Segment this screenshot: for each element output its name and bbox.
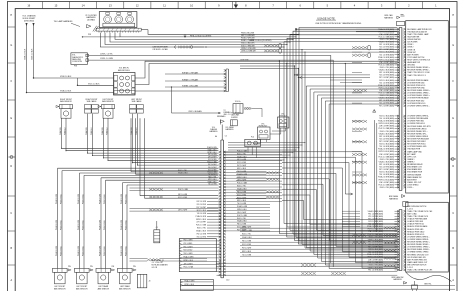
middle rows joining bus drops xyxy=(224,159,285,161)
svg-text:J1939- 1.0 GRN-WIR: J1939- 1.0 GRN-WIR xyxy=(241,50,257,52)
wires lower-left box to middle strip xyxy=(216,240,221,242)
svg-text:ABS SENSOR: ABS SENSOR xyxy=(76,288,88,291)
middle strip pins xyxy=(219,151,221,153)
svg-text:PARK BRAKE SW: PARK BRAKE SW xyxy=(407,176,421,179)
svg-text:V30A 1.0 BLK (ABS): V30A 1.0 BLK (ABS) xyxy=(379,97,395,100)
svg-text:RH AXLE PWR RELEASE: RH AXLE PWR RELEASE xyxy=(407,225,428,228)
firewall drop wire with arrow xyxy=(171,86,172,87)
svg-text:T40 1.0 GRN: T40 1.0 GRN xyxy=(184,253,193,255)
svg-text:M13 1.0 BLU (ABS): M13 1.0 BLU (ABS) xyxy=(368,220,383,223)
svg-text:K55 1.0 RED: K55 1.0 RED xyxy=(184,243,194,245)
svg-text:F82 1.0 GRN (ABS): F82 1.0 GRN (ABS) xyxy=(379,71,394,74)
rear sensor pair 1 horizontal feed xyxy=(58,167,219,169)
rear sensor pair 2 horizontal feed xyxy=(80,172,219,174)
svg-text:F82 1.0 GRN: F82 1.0 GRN xyxy=(208,154,216,156)
lower-left box pin rows xyxy=(180,240,182,242)
cluster connector bar left hatch marks xyxy=(93,26,97,32)
small lamp box FL4 xyxy=(245,139,260,146)
svg-text:D: D xyxy=(10,165,12,168)
bus drop wire B4 xyxy=(292,39,294,234)
svg-text:F82 1.0 GRN: F82 1.0 GRN xyxy=(237,224,246,226)
svg-text:F87B 1.0 BLU: F87B 1.0 BLU xyxy=(237,209,247,211)
extra long feeds y80-105 xyxy=(330,79,362,81)
svg-text:R46 1.0 YEL: R46 1.0 YEL xyxy=(237,218,246,220)
corner wire A1 xyxy=(306,86,397,248)
svg-text:T40 1.0 GRN: T40 1.0 GRN xyxy=(208,184,216,186)
svg-text:T40 1.0 GRN: T40 1.0 GRN xyxy=(197,213,207,215)
lower-left connector box J2 xyxy=(179,239,216,272)
right connector strip C21 lower xyxy=(398,210,400,271)
C3 drop wire 1 xyxy=(130,118,132,171)
svg-text:RH WHEEL LAMP INTERLOCK: RH WHEEL LAMP INTERLOCK xyxy=(407,28,432,31)
svg-text:M13 1.0 BLU: M13 1.0 BLU xyxy=(237,200,246,202)
svg-text:R46 1.0 YEL (ABS): R46 1.0 YEL (ABS) xyxy=(380,186,395,189)
diag pin box 2 xyxy=(86,59,89,62)
svg-text:BRK PDL: BRK PDL xyxy=(424,283,431,285)
svg-text:F82 1.0 GRN: F82 1.0 GRN xyxy=(197,233,207,235)
cluster bus wire 1 xyxy=(100,33,204,47)
svg-text:K55 1.0 RED (ABS): K55 1.0 RED (ABS) xyxy=(368,215,383,218)
IP cluster arrow symbol xyxy=(87,25,92,28)
svg-text:ENG BRAKE HIGH: ENG BRAKE HIGH xyxy=(407,171,423,174)
bottom center twisted pairs xyxy=(352,234,366,238)
svg-text:F87B 1.0 BLU: F87B 1.0 BLU xyxy=(207,152,216,154)
svg-text:LH SPARE WHEEL SPEED: LH SPARE WHEEL SPEED xyxy=(407,251,429,254)
rear sensor connector bar 3 xyxy=(96,268,111,272)
left ruler band ticks xyxy=(8,26,16,28)
middle right twisted pairs xyxy=(266,172,279,175)
svg-text:P60B BLU: P60B BLU xyxy=(64,127,66,135)
svg-text:V30A 1.0 BLK (ABS): V30A 1.0 BLK (ABS) xyxy=(379,160,395,163)
svg-text:G: G xyxy=(452,44,454,47)
lower-left sub box xyxy=(180,279,213,290)
svg-text:P67 2.0 WHT: P67 2.0 WHT xyxy=(237,165,246,167)
svg-text:USAGE NOTE: USAGE NOTE xyxy=(317,16,335,20)
left band fold mark xyxy=(9,156,16,158)
svg-text:F82 1.0 GRN (ABS): F82 1.0 GRN (ABS) xyxy=(368,240,383,243)
bus drop wire B5 xyxy=(295,37,297,238)
svg-text:T40 1.0 GRN (ABS): T40 1.0 GRN (ABS) xyxy=(379,81,394,84)
svg-text:TRAC CTRL SPLR 12.3 CHK: TRAC CTRL SPLR 12.3 CHK xyxy=(407,71,430,74)
right signal list box upper xyxy=(406,21,449,193)
fan wire C6 xyxy=(282,179,397,241)
svg-text:M13 1.0 BLU (ABS): M13 1.0 BLU (ABS) xyxy=(379,143,394,146)
svg-text:ABS SENSOR: ABS SENSOR xyxy=(102,100,114,103)
cluster pin stubs xyxy=(98,31,100,32)
J1939 vertical pair x294 x298 xyxy=(294,65,295,66)
svg-text:P14A 2.0 GRN (ABS): P14A 2.0 GRN (ABS) xyxy=(378,56,394,59)
rear sensor pair 4 horizontal feed xyxy=(123,182,219,184)
ground wire G2 vertical xyxy=(32,23,34,26)
svg-text:K55 1.0 RED: K55 1.0 RED xyxy=(237,162,247,164)
top extra row pair y49-52 xyxy=(240,49,397,51)
left twisted pair y258 xyxy=(147,259,160,262)
svg-text:P67 2.0 WHT (ABS): P67 2.0 WHT (ABS) xyxy=(379,76,394,79)
C3 drop wire 4 xyxy=(144,118,146,198)
ABS module internal circles xyxy=(120,76,124,80)
ABS right wire 1 xyxy=(135,61,397,78)
svg-text:SPARE 2: SPARE 2 xyxy=(407,161,414,164)
right signal list box lower xyxy=(406,202,449,272)
svg-text:J2H 1.0 WHT: J2H 1.0 WHT xyxy=(196,222,206,224)
svg-text:M13 1.0 BLU: M13 1.0 BLU xyxy=(237,168,246,170)
ABS module right pin boxes xyxy=(132,75,135,81)
front sensor pair 1 wires down xyxy=(61,118,63,148)
svg-text:GND - C##: GND - C## xyxy=(224,114,232,116)
svg-text:K55 1.0 RED: K55 1.0 RED xyxy=(208,169,216,171)
svg-text:K55 1.0 RED (ABS): K55 1.0 RED (ABS) xyxy=(379,102,394,105)
svg-text:TRAIL CTRL STEER PLCK CHK: TRAIL CTRL STEER PLCK CHK xyxy=(407,269,433,272)
svg-text:J2H 1.0 WHT: J2H 1.0 WHT xyxy=(208,157,217,159)
rear sensor pair 3 verticals xyxy=(100,178,102,268)
middle strip feeder line xyxy=(221,125,223,141)
lower box bottom squiggle xyxy=(406,272,452,282)
svg-text:OR BLKD - ECAB: OR BLKD - ECAB xyxy=(152,48,168,51)
svg-text:V30A 1.0 BLK: V30A 1.0 BLK xyxy=(24,48,27,60)
right strip top cap xyxy=(397,21,405,25)
svg-text:VOL: VOL xyxy=(212,127,215,129)
svg-text:P61B 1.0 BLU: P61B 1.0 BLU xyxy=(82,220,84,230)
top center zone arrow marker xyxy=(234,2,237,8)
svg-text:M13 1.0 BLU: M13 1.0 BLU xyxy=(208,179,216,181)
svg-text:TEL LAMP HARNESS: TEL LAMP HARNESS xyxy=(54,20,73,23)
svg-text:V30B 1.0 BLK: V30B 1.0 BLK xyxy=(60,76,72,78)
right connector strip C20 upper xyxy=(398,28,400,191)
svg-text:F82C 1.0 GRN-WIR: F82C 1.0 GRN-WIR xyxy=(241,35,256,37)
middle bulkhead connector strip C10 xyxy=(220,140,222,278)
svg-text:TRAIL CTRL STEER PLCK: TRAIL CTRL STEER PLCK xyxy=(407,215,429,218)
svg-text:P14C 2.0 TAN (ABS): P14C 2.0 TAN (ABS) xyxy=(378,35,394,38)
fan wire C2 xyxy=(282,157,397,262)
svg-text:K55 1.0 RED: K55 1.0 RED xyxy=(197,236,207,238)
jumper box xyxy=(231,120,238,126)
svg-text:JUMPER: JUMPER xyxy=(231,117,238,119)
center wire y68 xyxy=(240,68,298,70)
svg-text:M13 1.0 BLU: M13 1.0 BLU xyxy=(184,250,193,252)
diag wire 1 xyxy=(89,56,331,264)
J1939 junction arrow rows into verticals xyxy=(295,74,370,76)
svg-text:USE IN TRUCK WITH MODEL YEAR/E: USE IN TRUCK WITH MODEL YEAR/EMISSION EN… xyxy=(315,22,361,25)
mini strip pins xyxy=(224,70,226,72)
svg-text:LH AXLE PWR GND: LH AXLE PWR GND xyxy=(407,220,424,223)
svg-text:F82 1.0 GRN (ABS): F82 1.0 GRN (ABS) xyxy=(368,212,383,215)
svg-text:FL4: FL4 xyxy=(251,137,254,139)
svg-text:F82 1.0 GRN: F82 1.0 GRN xyxy=(184,240,193,242)
corner wire A7 xyxy=(329,104,397,269)
svg-text:P61B 1.0 BLU: P61B 1.0 BLU xyxy=(125,220,127,230)
FL4 stub wires xyxy=(247,147,249,153)
svg-text:R46 1.0 YEL (ABS): R46 1.0 YEL (ABS) xyxy=(380,66,395,69)
svg-text:P61B 1.0 BLU: P61B 1.0 BLU xyxy=(82,246,84,256)
svg-text:P67 2.0 WHT: P67 2.0 WHT xyxy=(196,207,206,209)
right ruler band ticks xyxy=(450,26,458,28)
svg-text:F87B 1.0 BLU (ABS): F87B 1.0 BLU (ABS) xyxy=(379,86,395,89)
triangle A symbol in gap xyxy=(373,109,376,112)
rear sensor body 2 xyxy=(77,272,88,284)
rear sensor pair 2 verticals xyxy=(79,173,81,268)
bottom lowest rows xyxy=(217,271,398,273)
svg-text:R46 1.0 YEL: R46 1.0 YEL xyxy=(178,170,187,172)
svg-text:V30A 1.0 BLK (ABS): V30A 1.0 BLK (ABS) xyxy=(368,266,384,269)
bus drop wire B3 xyxy=(289,42,291,231)
svg-text:VOL B+: VOL B+ xyxy=(235,101,241,103)
center wire y66 xyxy=(240,65,295,67)
bottom lower rows with twisted pairs xyxy=(240,252,397,254)
svg-text:P14A 2.0 GRN (ABS): P14A 2.0 GRN (ABS) xyxy=(378,176,394,179)
svg-text:T40 1.0 GRN (ABS): T40 1.0 GRN (ABS) xyxy=(379,117,394,120)
staircase horizontals to middle connector xyxy=(61,148,62,149)
right strip lower twisted pairs xyxy=(384,227,396,230)
long vertical wire x279 from y61 xyxy=(279,61,397,233)
long vertical wire x286 from y63 xyxy=(286,63,287,64)
svg-text:T40 1.0 GRN: T40 1.0 GRN xyxy=(237,171,246,173)
svg-text:RH STEER PWR RELEASE: RH STEER PWR RELEASE xyxy=(407,138,429,141)
svg-text:J2H 1.0 WHT (ABS): J2H 1.0 WHT (ABS) xyxy=(379,61,394,64)
svg-text:F82 1.0 GRN: F82 1.0 GRN xyxy=(242,241,251,243)
svg-text:V30A 1.0 BLK: V30A 1.0 BLK xyxy=(60,90,72,93)
svg-text:P61B 1.0 BLU: P61B 1.0 BLU xyxy=(82,194,84,204)
svg-text:C4: C4 xyxy=(225,136,227,138)
svg-text:F87B 1.0 BLU: F87B 1.0 BLU xyxy=(185,284,194,286)
svg-text:J2H 1.0 WHT: J2H 1.0 WHT xyxy=(208,167,217,169)
ABS right wire 3 xyxy=(135,90,226,92)
cluster bus wire 3 xyxy=(110,33,397,42)
svg-text:F87B 1.0 BLU (CLUSTER): F87B 1.0 BLU (CLUSTER) xyxy=(250,40,272,42)
rear sensor body 1 xyxy=(55,272,66,284)
svg-text:M13 1.0 BLU: M13 1.0 BLU xyxy=(242,251,251,253)
ABS right wire 2 xyxy=(135,64,397,85)
rear sensor connector bar 4 xyxy=(118,268,133,272)
bus drop wire B6 xyxy=(298,34,300,241)
ABS module left pin boxes xyxy=(114,75,117,81)
svg-text:P14A 2.0 GRN (ABS): P14A 2.0 GRN (ABS) xyxy=(367,225,383,228)
fan wire C5 xyxy=(282,173,397,246)
svg-text:J2H 1.0 WHT: J2H 1.0 WHT xyxy=(184,263,193,265)
VOL diagnostic data link box U2 xyxy=(71,53,88,65)
svg-text:LH DRIVE PWR RELEASE: LH DRIVE PWR RELEASE xyxy=(407,117,429,120)
svg-text:H: H xyxy=(10,14,12,17)
right strip upper long feed wires xyxy=(352,51,362,53)
svg-text:P61B 1.0 BLU: P61B 1.0 BLU xyxy=(125,246,127,256)
svg-text:D: D xyxy=(452,165,454,168)
svg-text:M13 1.0 BLU (ABS): M13 1.0 BLU (ABS) xyxy=(379,171,394,174)
bottom full width rows xyxy=(180,285,455,287)
svg-text:K55 1.0 RED: K55 1.0 RED xyxy=(197,204,207,206)
svg-text:K55 1.0 RED: K55 1.0 RED xyxy=(208,159,216,161)
cab mainframe twisted pair xyxy=(178,46,190,48)
svg-text:HARNESS: HARNESS xyxy=(384,17,393,20)
front sensor pair 4 wires down xyxy=(132,114,134,163)
ground wire G1 vertical xyxy=(25,23,27,26)
svg-text:CONN 9PIN: CONN 9PIN xyxy=(72,61,82,63)
connector C1 small vertical xyxy=(154,230,160,243)
svg-text:BATT LOAD: BATT LOAD xyxy=(407,212,417,215)
relay K2 stub wires xyxy=(280,128,282,134)
svg-text:ENG BRAKE LOW: ENG BRAKE LOW xyxy=(407,166,422,169)
svg-text:J2H 1.0 WHT (ABS): J2H 1.0 WHT (ABS) xyxy=(379,181,394,184)
bottom left lower rows tp group xyxy=(217,262,398,264)
rear sensor pair 4 verticals xyxy=(122,183,124,269)
svg-text:J3: J3 xyxy=(149,281,151,283)
rear sensor pair 3 horizontal feed xyxy=(101,177,218,179)
svg-text:V30D 1.0 BLK-WIR: V30D 1.0 BLK-WIR xyxy=(241,43,255,45)
svg-text:P61B 1.0 BLU: P61B 1.0 BLU xyxy=(104,246,106,256)
fan wire C4 xyxy=(282,168,397,252)
corner wire A5 xyxy=(322,98,398,262)
right band fold mark xyxy=(450,158,457,160)
list box upper pin arrows xyxy=(404,28,406,30)
svg-text:F87B 1.0 BLU: F87B 1.0 BLU xyxy=(196,219,207,221)
right strip upper pins and wires xyxy=(397,28,399,30)
svg-text:C10: C10 xyxy=(226,280,229,282)
twisted pair on corner rows y89-92 xyxy=(353,89,367,92)
svg-text:R46 1.0 YEL: R46 1.0 YEL xyxy=(197,228,206,230)
svg-text:R46 1.0 YEL: R46 1.0 YEL xyxy=(237,153,246,155)
svg-text:J2H 1.0 WHT: J2H 1.0 WHT xyxy=(237,212,246,214)
middle strip right row stubs and labels xyxy=(224,151,283,153)
svg-text:P67 2.0 WHT: P67 2.0 WHT xyxy=(242,248,251,250)
small block J3 xyxy=(137,274,147,288)
svg-text:P61B 1.0 BLU: P61B 1.0 BLU xyxy=(60,246,62,256)
cluster bus wire 2 xyxy=(105,33,397,45)
middle strip left stub labels xyxy=(207,201,221,203)
svg-text:V30A 1.0 BLK (ABS): V30A 1.0 BLK (ABS) xyxy=(379,41,395,44)
svg-text:V30C 1.0 BLK: V30C 1.0 BLK xyxy=(88,83,100,85)
svg-text:R46 1.0 YEL: R46 1.0 YEL xyxy=(208,177,216,179)
svg-text:P60B BLU: P60B BLU xyxy=(91,127,93,135)
svg-text:J1939 +: J1939 + xyxy=(407,187,413,189)
right strip upper twisted pairs xyxy=(352,46,367,49)
svg-text:HEADLAMP DIP: HEADLAMP DIP xyxy=(407,61,421,64)
corner wire A6 xyxy=(325,101,397,265)
svg-text:R46 1.0 YEL: R46 1.0 YEL xyxy=(242,234,251,236)
svg-text:LH DRIVE WHEEL SPEED +: LH DRIVE WHEEL SPEED + xyxy=(407,105,429,107)
svg-text:P61B 1.0 BLU: P61B 1.0 BLU xyxy=(125,194,127,204)
svg-text:ABS SENSOR: ABS SENSOR xyxy=(119,288,131,291)
svg-text:HARNESS: HARNESS xyxy=(389,197,398,200)
svg-text:ABS SENSOR: ABS SENSOR xyxy=(60,100,72,103)
vertical x345 with junction arrow xyxy=(345,64,352,195)
fan wire C1 xyxy=(282,152,397,268)
svg-text:F87B 1.0 BLU: F87B 1.0 BLU xyxy=(184,260,193,262)
long vertical pair x374 xyxy=(374,120,376,228)
front sensor pair 2 wires down xyxy=(87,114,89,153)
svg-text:J2H 1.0 WHT: J2H 1.0 WHT xyxy=(178,210,187,212)
diag wire 2 xyxy=(89,60,334,267)
rear sensor connector bar 2 xyxy=(75,268,90,272)
svg-text:SEN CABLE: SEN CABLE xyxy=(87,100,98,103)
corner wire A3 xyxy=(314,92,397,255)
svg-text:P14A 2.0 GRN (ABS): P14A 2.0 GRN (ABS) xyxy=(378,148,394,151)
svg-text:J1939+ 1.0 YEL-WIR: J1939+ 1.0 YEL-WIR xyxy=(241,48,256,50)
cluster gauge C xyxy=(126,15,134,23)
firewall pennant flag xyxy=(220,120,222,125)
svg-text:J2H 1.0 WHT: J2H 1.0 WHT xyxy=(242,227,251,229)
svg-text:TRLR ABS PWR: TRLR ABS PWR xyxy=(407,148,421,151)
svg-text:K55 1.0 RED: K55 1.0 RED xyxy=(237,194,247,196)
front sensor pair 3 wires down xyxy=(103,118,105,158)
svg-text:P14C 2.0 TAN (ABS): P14C 2.0 TAN (ABS) xyxy=(378,127,394,130)
right strip lower pins xyxy=(397,210,399,212)
rear sensor body 4 xyxy=(120,272,131,284)
svg-text:P60B BLU: P60B BLU xyxy=(136,127,138,135)
wire from left frame to bus xyxy=(82,36,83,37)
top left twisted pair 1 xyxy=(264,45,278,48)
bus drop wire B1 xyxy=(283,47,285,224)
svg-text:R46 1.0 YEL: R46 1.0 YEL xyxy=(237,186,246,188)
svg-text:P61B 1.0 BLU: P61B 1.0 BLU xyxy=(60,194,62,204)
svg-text:J1939 SHD: J1939 SHD xyxy=(240,59,249,61)
svg-text:(GROUND): (GROUND) xyxy=(24,20,35,22)
svg-text:SEN CABLE: SEN CABLE xyxy=(132,100,143,103)
svg-text:K55 1.0 RED: K55 1.0 RED xyxy=(242,244,252,246)
svg-text:C: C xyxy=(452,212,454,215)
cluster gauge B xyxy=(115,15,123,23)
svg-text:P60B BLU: P60B BLU xyxy=(106,127,108,135)
bus drop wire B2 xyxy=(286,45,288,228)
svg-text:M13 1.0 BLU (ABS): M13 1.0 BLU (ABS) xyxy=(379,51,394,54)
svg-text:HARNESS: HARNESS xyxy=(393,278,402,281)
svg-text:J1939- 1.0 GRN: J1939- 1.0 GRN xyxy=(100,58,114,60)
bus junction arrow xyxy=(184,34,186,37)
wire tp to right xyxy=(193,46,206,48)
cluster connector bar hatched xyxy=(96,28,141,31)
svg-text:LH STEER PWR RELEASE: LH STEER PWR RELEASE xyxy=(407,97,429,100)
svg-text:F82 1.0 GRN: F82 1.0 GRN xyxy=(197,201,207,203)
svg-text:K55 1.0 RED (ABS): K55 1.0 RED (ABS) xyxy=(379,137,394,140)
svg-text:T40 1.0 GRN: T40 1.0 GRN xyxy=(242,255,251,257)
cluster bus wire 4 xyxy=(115,31,397,39)
svg-text:F87B 1.0 BLU (ABS): F87B 1.0 BLU (ABS) xyxy=(379,150,395,153)
bottom wire rows center xyxy=(240,227,397,229)
svg-text:WARN LAMP DRIVE OUT: WARN LAMP DRIVE OUT xyxy=(407,261,428,264)
bus drop wire B7 xyxy=(301,50,303,245)
svg-text:P61B 1.0 BLU: P61B 1.0 BLU xyxy=(60,220,62,230)
svg-text:P67 2.0 WHT: P67 2.0 WHT xyxy=(184,246,193,248)
extra middle-left rows xyxy=(130,190,219,192)
svg-text:RH AXLE PWR GND2: RH AXLE PWR GND2 xyxy=(407,230,424,233)
cluster bus wire 5 xyxy=(120,29,397,37)
junction ground wire to ABS y92 xyxy=(26,92,27,93)
VOL B+ box stub xyxy=(251,107,262,109)
ABS module bottom pin row xyxy=(114,91,135,95)
instrument cluster U1 box xyxy=(99,12,137,28)
svg-text:STOP LAMP SWITCH: STOP LAMP SWITCH xyxy=(407,56,425,59)
svg-text:P67 2.0 WHT (ABS): P67 2.0 WHT (ABS) xyxy=(368,246,383,249)
svg-text:(16 WAY): (16 WAY) xyxy=(87,18,95,21)
svg-text:F87A 1.0 BLU (CLUSTER): F87A 1.0 BLU (CLUSTER) xyxy=(190,34,212,37)
diag pin box 1 xyxy=(86,54,89,57)
rear sensor pair 1 verticals xyxy=(57,168,59,268)
rear sensor body 3 xyxy=(98,272,109,284)
svg-text:F87B 1.0 BLU (ABS): F87B 1.0 BLU (ABS) xyxy=(379,122,395,125)
svg-text:P61B 1.0 BLU: P61B 1.0 BLU xyxy=(104,220,106,230)
svg-text:M13 1.0 BLU: M13 1.0 BLU xyxy=(197,210,207,212)
svg-text:F82 1.0 GRN: F82 1.0 GRN xyxy=(237,159,246,161)
svg-text:P14C 2.0 TAN (ABS): P14C 2.0 TAN (ABS) xyxy=(378,92,394,95)
center long wire A y61 xyxy=(279,61,280,62)
top two short strip rows xyxy=(356,28,395,30)
svg-text:F82 1.0 GRN: F82 1.0 GRN xyxy=(178,194,187,196)
svg-text:K55 1.0 RED (ABS): K55 1.0 RED (ABS) xyxy=(379,166,394,169)
svg-text:ABS SENSOR: ABS SENSOR xyxy=(98,288,110,291)
rear sensor connector bar 1 xyxy=(53,268,68,272)
svg-text:P61B 1.0 BLU: P61B 1.0 BLU xyxy=(104,194,106,204)
svg-text:T40 1.0 GRN (ABS): T40 1.0 GRN (ABS) xyxy=(368,251,383,254)
svg-text:K55 1.0 RED (ABS): K55 1.0 RED (ABS) xyxy=(379,46,394,49)
svg-text:P14C 2.0 TAN (ABS): P14C 2.0 TAN (ABS) xyxy=(378,155,394,158)
cluster bus wire 6 top xyxy=(141,29,148,31)
